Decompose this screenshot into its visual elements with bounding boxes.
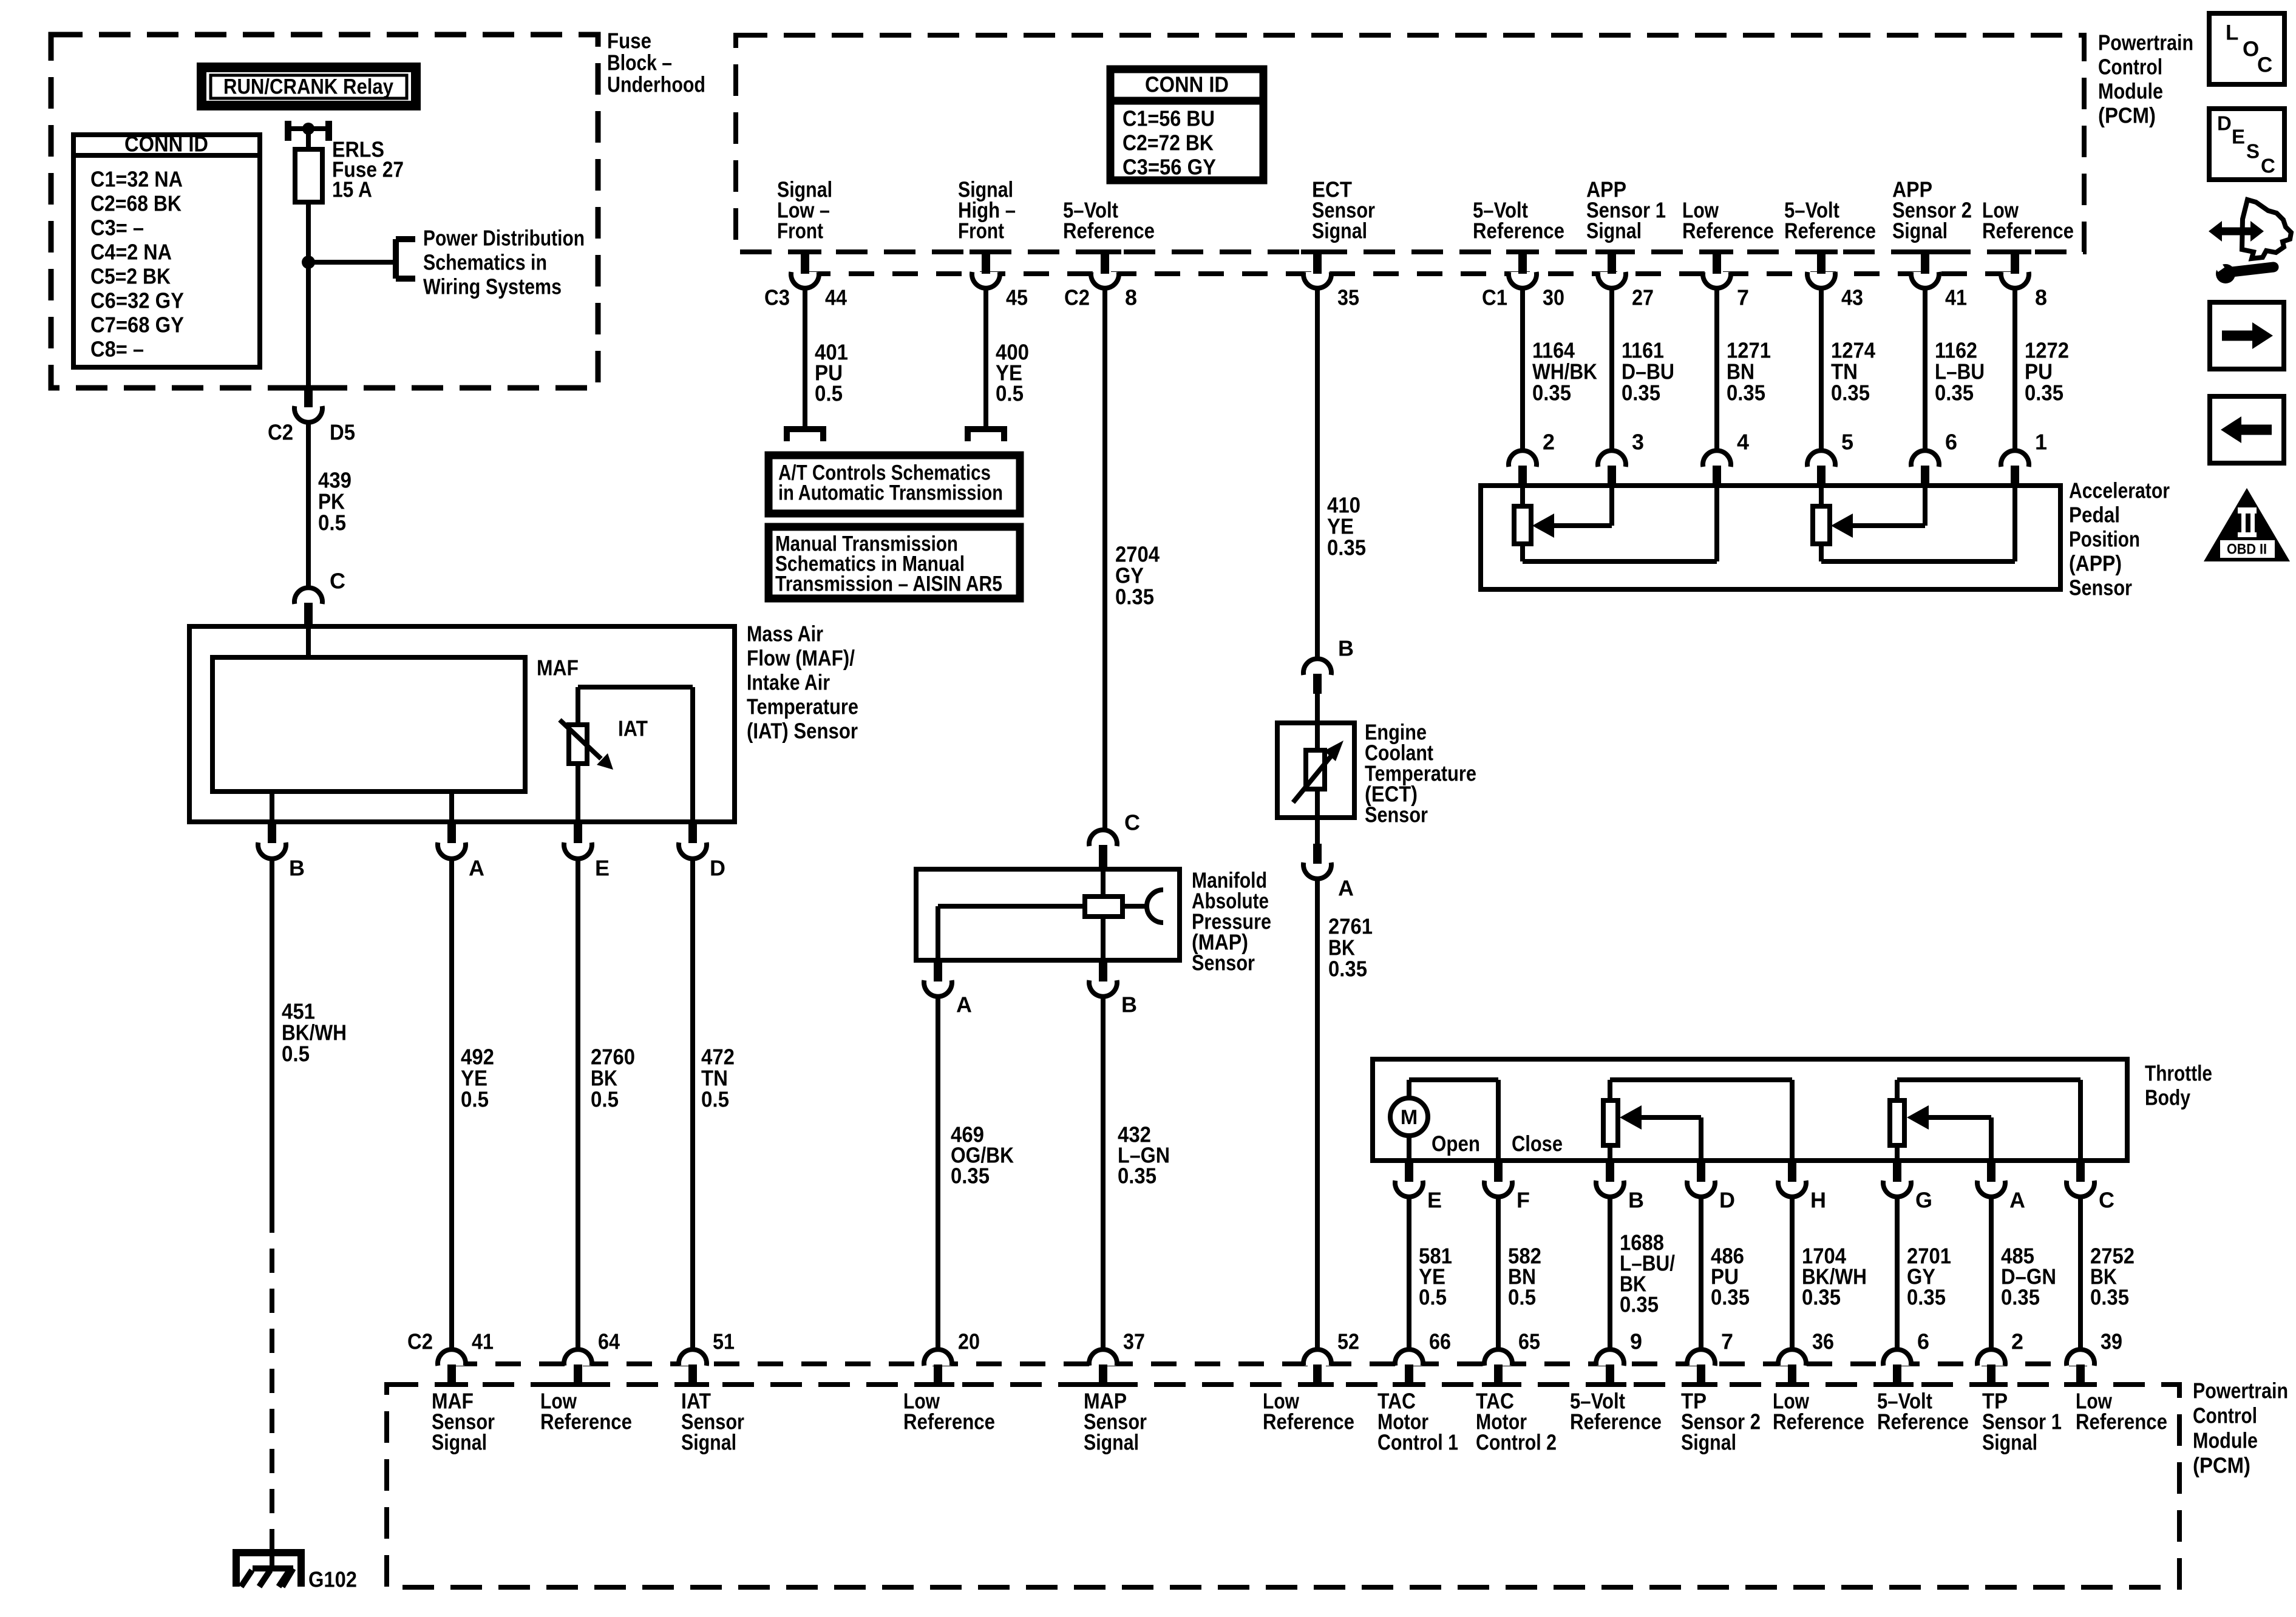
motor to pin E [1407, 1136, 1411, 1161]
svg-text:(APP): (APP) [2069, 551, 2122, 576]
svg-text:D: D [710, 856, 725, 881]
svg-text:0.5: 0.5 [701, 1087, 729, 1112]
MAP label [1192, 868, 1271, 975]
TP sensor 2 wiper [1620, 1105, 1701, 1161]
port label TAC Motor Control 1 [1377, 1389, 1458, 1455]
svg-text:Signal: Signal [1586, 219, 1642, 243]
wire label 1161 [1622, 338, 1674, 405]
PCM pin 44 [764, 252, 847, 310]
PCM pin 35 [1301, 252, 1359, 310]
svg-text:Transmission – AISIN AR5: Transmission – AISIN AR5 [775, 572, 1002, 596]
thermistor ECT [1293, 723, 1343, 818]
wire 432 L-GN [1101, 997, 1106, 1350]
APP pot 1 low wire [1523, 486, 1717, 561]
port label 5-Volt Reference C2 [1063, 198, 1155, 243]
svg-text:4: 4 [1737, 430, 1749, 455]
svg-text:8: 8 [2035, 285, 2047, 310]
wire label 582 [1508, 1244, 1541, 1310]
svg-text:CONN ID: CONN ID [124, 132, 208, 157]
wire label 485 [2001, 1244, 2056, 1310]
svg-text:Reference: Reference [1773, 1409, 1864, 1434]
CONN ID table PCM [1107, 69, 1267, 180]
svg-text:44: 44 [825, 285, 847, 310]
svg-text:Intake Air: Intake Air [747, 670, 830, 695]
svg-text:Mass Air: Mass Air [747, 622, 823, 646]
port label IAT Sensor Signal [681, 1389, 744, 1455]
svg-text:C3= –: C3= – [90, 215, 144, 240]
thermistor IAT [560, 716, 648, 770]
wire 1164 WH/BK [1520, 289, 1525, 450]
svg-text:in Automatic Transmission: in Automatic Transmission [778, 481, 1003, 505]
svg-text:2: 2 [1543, 430, 1555, 455]
svg-text:0.35: 0.35 [1907, 1285, 1946, 1310]
wire IAT top bracket [578, 687, 693, 822]
svg-text:0.35: 0.35 [1802, 1285, 1841, 1310]
wire junction to power distribution bracket [308, 260, 396, 265]
svg-text:Powertrain: Powertrain [2098, 30, 2193, 55]
svg-text:C: C [1124, 810, 1140, 835]
PCM pin 27 [1595, 252, 1654, 310]
MAP sensor box [916, 869, 1180, 960]
svg-text:E: E [1427, 1188, 1442, 1213]
throttle body label [2145, 1061, 2212, 1110]
svg-text:0.35: 0.35 [1327, 535, 1366, 560]
port label TP Sensor 2 Signal [1681, 1389, 1761, 1455]
svg-text:36: 36 [1812, 1329, 1834, 1354]
svg-text:Reference: Reference [2076, 1409, 2167, 1434]
svg-text:(PCM): (PCM) [2098, 103, 2156, 128]
svg-text:0.35: 0.35 [1532, 381, 1571, 405]
svg-text:B: B [1338, 636, 1354, 661]
svg-text:Block –: Block – [607, 50, 672, 75]
label Open [1432, 1131, 1480, 1156]
svg-text:Signal: Signal [1982, 1430, 2037, 1455]
svg-text:66: 66 [1429, 1329, 1451, 1354]
svg-text:41: 41 [472, 1329, 494, 1354]
MAP pin B [1089, 961, 1137, 1017]
svg-text:0.35: 0.35 [2090, 1285, 2129, 1310]
wire MAF pin B inside [270, 792, 274, 822]
svg-text:Sensor: Sensor [1365, 802, 1428, 827]
wire 2704 GY [1102, 289, 1107, 829]
svg-text:Underhood: Underhood [607, 72, 705, 97]
port label Signal High Front [958, 177, 1016, 243]
svg-text:5: 5 [1841, 430, 1853, 455]
throttle pin B [1596, 1162, 1644, 1213]
wire relay to fuse [306, 129, 311, 149]
svg-text:A: A [956, 992, 972, 1017]
wire label 486 [1711, 1244, 1750, 1310]
icon arrow left box [2210, 396, 2284, 463]
APP pot 1 wiper [1532, 486, 1612, 538]
svg-text:Throttle: Throttle [2145, 1061, 2212, 1086]
wire C into MAF [306, 626, 311, 657]
PCM bottom pin 20 [922, 1329, 980, 1385]
svg-text:A: A [1338, 876, 1354, 901]
svg-text:0.35: 0.35 [1727, 381, 1765, 405]
port label 5-Volt Reference 9 [1570, 1389, 1662, 1434]
throttle pin H [1778, 1162, 1826, 1213]
svg-text:Wiring Systems: Wiring Systems [423, 274, 562, 299]
svg-text:0.5: 0.5 [1419, 1285, 1447, 1310]
svg-text:Reference: Reference [1473, 219, 1564, 243]
MAF/IAT outer box [189, 626, 735, 822]
wire label 401 PU 0.5 [815, 340, 848, 406]
wire 582 [1496, 1198, 1501, 1350]
relay output terminal bracket [285, 121, 332, 141]
svg-text:Sensor: Sensor [2069, 575, 2132, 600]
svg-text:Reference: Reference [540, 1409, 632, 1434]
svg-text:C2: C2 [1064, 285, 1090, 310]
APP pin 2 [1509, 430, 1555, 485]
svg-text:C1=56 BU: C1=56 BU [1123, 106, 1215, 131]
throttle pin G [1883, 1162, 1932, 1213]
svg-text:7: 7 [1737, 285, 1749, 310]
svg-text:Reference: Reference [1982, 219, 2074, 243]
svg-text:Control 2: Control 2 [1476, 1430, 1557, 1455]
wire label 2701 [1907, 1244, 1951, 1310]
svg-text:OBD II: OBD II [2227, 541, 2267, 558]
PCM pin 8 C2 [1064, 252, 1137, 310]
APP potentiometer 2 [1813, 486, 1830, 561]
motor open wire [1409, 1080, 1498, 1161]
TAC motor M [1390, 1098, 1428, 1136]
svg-text:D: D [2217, 112, 2232, 135]
svg-text:Reference: Reference [1682, 219, 1774, 243]
wire ECT B to box [1315, 694, 1320, 723]
APP pin 5 [1807, 430, 1853, 485]
svg-text:0.35: 0.35 [1622, 381, 1660, 405]
icon LOC box [2209, 13, 2284, 84]
svg-text:0.35: 0.35 [1831, 381, 1870, 405]
APP pin 1 [2001, 430, 2047, 485]
CONN ID table fuse block [73, 132, 260, 368]
PCM bottom label [2193, 1378, 2288, 1478]
relay RUN/CRANK box [202, 67, 416, 106]
throttle pin C [2067, 1162, 2114, 1213]
svg-text:0.35: 0.35 [1935, 381, 1974, 405]
wire label 400 YE 0.5 [996, 340, 1029, 406]
svg-text:27: 27 [1632, 285, 1654, 310]
wire label 2760 BK 0.5 [591, 1045, 635, 1112]
wire 439 PK [306, 422, 311, 588]
PCM bottom pin 52 [1301, 1329, 1359, 1385]
wire 1704 [1790, 1198, 1795, 1350]
wire label 2704 GY 0.35 [1115, 542, 1160, 609]
svg-text:0.35: 0.35 [2001, 1285, 2040, 1310]
svg-text:RUN/CRANK Relay: RUN/CRANK Relay [223, 75, 393, 99]
APP pot 2 low wire [1821, 486, 2015, 561]
svg-text:Reference: Reference [903, 1409, 995, 1434]
ground G102 [236, 1551, 357, 1592]
svg-text:0.35: 0.35 [1620, 1292, 1659, 1317]
powertrain control module (PCM) bottom dashed box [387, 1385, 2179, 1587]
connector A at ECT [1303, 818, 1354, 901]
PCM bottom pin 41 [407, 1329, 494, 1385]
wire label 1164 [1532, 338, 1597, 405]
wire label 1271 [1727, 338, 1771, 405]
port label 5-Volt Reference 43 [1784, 198, 1876, 243]
PCM pin 41 [1909, 252, 1967, 310]
svg-text:Schematics in: Schematics in [423, 250, 547, 275]
svg-text:C1=32 NA: C1=32 NA [90, 167, 183, 192]
ECT sensor box [1277, 723, 1354, 818]
svg-text:M: M [1401, 1106, 1418, 1129]
svg-text:Flow (MAF)/: Flow (MAF)/ [747, 646, 855, 671]
wire 401 PU [803, 289, 807, 429]
MAF pin E [564, 823, 610, 881]
wire 485 [1989, 1198, 1994, 1350]
port label Low Reference 20 [903, 1389, 995, 1434]
port label Low Reference 52 [1263, 1389, 1354, 1434]
svg-text:43: 43 [1841, 285, 1863, 310]
connector B at ECT [1303, 636, 1354, 694]
throttle pin D [1687, 1162, 1735, 1213]
MAF pin B [258, 823, 305, 881]
port label APP Sensor 1 Signal [1586, 177, 1666, 243]
svg-text:C5=2 BK: C5=2 BK [90, 264, 171, 289]
svg-text:F: F [1517, 1188, 1530, 1213]
throttle body box [1373, 1059, 2127, 1161]
wire label 1274 [1831, 338, 1875, 405]
port label APP Sensor 2 Signal [1892, 177, 1972, 243]
wire label 439 PK 0.5 [318, 468, 352, 535]
port label Signal Low Front [777, 177, 832, 243]
svg-text:0.35: 0.35 [2025, 381, 2063, 405]
svg-text:0.5: 0.5 [996, 381, 1024, 406]
label Close [1512, 1131, 1563, 1156]
TP sensor 1 wiper [1907, 1105, 1991, 1161]
inline connector dotted line top [805, 271, 2015, 276]
svg-text:35: 35 [1337, 285, 1359, 310]
connector C at MAP [1089, 810, 1140, 870]
port label ECT Sensor Signal [1312, 177, 1375, 243]
svg-text:Signal: Signal [1892, 219, 1948, 243]
svg-text:Reference: Reference [1877, 1409, 1969, 1434]
PCM bottom pin 64 [562, 1329, 620, 1385]
wire 581 [1407, 1198, 1411, 1350]
wire 1162 L–BU [1923, 289, 1927, 450]
icon DESC box [2209, 109, 2284, 180]
svg-text:37: 37 [1123, 1329, 1145, 1354]
svg-text:65: 65 [1518, 1329, 1540, 1354]
svg-text:C2=68 BK: C2=68 BK [90, 191, 182, 216]
svg-text:Reference: Reference [1570, 1409, 1662, 1434]
MAF/IAT label [747, 622, 858, 744]
svg-text:Reference: Reference [1263, 1409, 1354, 1434]
svg-text:Reference: Reference [1784, 219, 1876, 243]
port label 5-Volt Reference 6 [1877, 1389, 1969, 1434]
icon OBD II triangle [2204, 488, 2290, 561]
port label Low Reference 7 [1682, 198, 1774, 243]
svg-text:Module: Module [2193, 1428, 2258, 1453]
wire label 451 BK/WH 0.5 [282, 999, 347, 1066]
PCM pin 45 [970, 252, 1028, 310]
svg-text:G: G [1915, 1188, 1932, 1213]
svg-text:C1: C1 [1482, 285, 1507, 310]
svg-text:Control: Control [2098, 55, 2162, 80]
wire 1161 D–BU [1609, 289, 1614, 450]
svg-text:Open: Open [1432, 1131, 1480, 1156]
PCM bottom pin 66 [1393, 1329, 1451, 1385]
svg-text:Front: Front [958, 219, 1004, 243]
svg-text:H: H [1810, 1188, 1826, 1213]
APP pin 4 [1703, 430, 1749, 485]
PCM pin 30 C1 [1482, 252, 1564, 310]
svg-text:45: 45 [1006, 285, 1028, 310]
APP pot 2 wiper [1831, 486, 1925, 538]
svg-text:15 A: 15 A [332, 177, 372, 202]
svg-text:D5: D5 [330, 420, 355, 445]
port label MAP Sensor Signal [1084, 1389, 1147, 1455]
PCM bottom pin 2 [1975, 1329, 2023, 1385]
svg-text:Body: Body [2145, 1085, 2190, 1110]
svg-text:30: 30 [1543, 285, 1564, 310]
svg-text:L: L [2226, 21, 2238, 45]
svg-text:Signal: Signal [432, 1430, 487, 1455]
PCM pin 8 C1 [1999, 252, 2047, 310]
svg-text:C3: C3 [764, 285, 790, 310]
svg-text:C2: C2 [268, 420, 293, 445]
svg-text:0.5: 0.5 [282, 1042, 310, 1066]
wire MAF pin A inside [449, 792, 454, 822]
fuse block label [607, 29, 705, 97]
wire label 410 YE 0.35 [1327, 493, 1366, 560]
PCM pin 43 [1805, 252, 1863, 310]
wire 492 YE [449, 859, 454, 1350]
power distribution bracket [396, 239, 415, 279]
svg-text:CONN ID: CONN ID [1145, 72, 1229, 97]
svg-text:Power Distribution: Power Distribution [423, 226, 585, 251]
APP pin 3 [1598, 430, 1644, 485]
port label TP Sensor 1 Signal [1982, 1389, 2062, 1455]
MAP pin A [924, 961, 972, 1017]
wire label 492 YE 0.5 [461, 1045, 494, 1112]
svg-text:(PCM): (PCM) [2193, 1453, 2250, 1478]
svg-text:C2: C2 [407, 1329, 433, 1354]
svg-text:Signal: Signal [681, 1430, 736, 1455]
wire 451 dashed to ground [270, 1209, 274, 1551]
svg-text:E: E [595, 856, 610, 881]
svg-text:Close: Close [1512, 1131, 1563, 1156]
svg-text:C3=56 GY: C3=56 GY [1123, 155, 1216, 180]
throttle pin E [1395, 1162, 1442, 1213]
wire IAT bottom [576, 764, 580, 822]
wire 451 BK/WH solid [270, 859, 274, 1209]
svg-text:Temperature: Temperature [747, 694, 858, 719]
manual transmission reference box [769, 527, 1020, 598]
APP sensor box [1481, 486, 2060, 589]
svg-text:Fuse: Fuse [607, 29, 651, 53]
svg-text:39: 39 [2101, 1329, 2122, 1354]
wire label 469 OG/BK 0.35 [951, 1122, 1014, 1188]
svg-text:(IAT) Sensor: (IAT) Sensor [747, 719, 858, 744]
svg-text:Signal: Signal [1084, 1430, 1139, 1455]
PCM bottom pin 9 [1594, 1329, 1642, 1385]
svg-text:0.35: 0.35 [1711, 1285, 1750, 1310]
svg-text:IAT: IAT [618, 716, 648, 741]
svg-text:C4=2 NA: C4=2 NA [90, 240, 172, 265]
fuse block underhood dashed box [51, 35, 598, 388]
icon wiring tool [2209, 200, 2291, 283]
svg-text:41: 41 [1945, 285, 1967, 310]
connector C2 pin D5 [268, 388, 355, 445]
connector C at MAF [294, 569, 345, 628]
svg-text:0.5: 0.5 [461, 1087, 489, 1112]
svg-text:Control: Control [2193, 1403, 2257, 1428]
ECT label [1365, 720, 1476, 827]
PCM top label [2098, 30, 2193, 128]
wire 1688 [1608, 1198, 1612, 1350]
svg-text:0.35: 0.35 [951, 1164, 990, 1188]
throttle pin A [1977, 1162, 2025, 1213]
svg-text:C6=32 GY: C6=32 GY [90, 288, 184, 313]
wire label 1272 [2025, 338, 2069, 405]
svg-text:B: B [1628, 1188, 1644, 1213]
MAP internal symbol [938, 869, 1163, 960]
wire 2760 BK [576, 859, 580, 1350]
port label Low Reference 39 [2076, 1389, 2167, 1434]
svg-text:51: 51 [713, 1329, 735, 1354]
svg-text:G102: G102 [308, 1567, 357, 1592]
TP sensor 1 potentiometer [1890, 1080, 2080, 1161]
svg-text:D: D [1719, 1188, 1735, 1213]
svg-text:B: B [1121, 992, 1137, 1017]
svg-text:6: 6 [1917, 1329, 1929, 1354]
wire fuse to junction [306, 202, 311, 262]
svg-text:Powertrain: Powertrain [2193, 1378, 2288, 1403]
svg-text:Module: Module [2098, 79, 2163, 104]
PCM pin 7 [1700, 252, 1749, 310]
PCM bottom pin 51 [676, 1329, 735, 1385]
bracket to A/T box 44 [787, 429, 823, 441]
wire 400 YE [983, 289, 988, 429]
TP sensor 2 potentiometer [1603, 1080, 1792, 1161]
svg-text:E: E [2232, 126, 2245, 148]
bracket to A/T box 45 [968, 429, 1004, 441]
svg-text:0.35: 0.35 [1118, 1164, 1156, 1188]
svg-text:0.5: 0.5 [815, 381, 843, 406]
port label Low Reference 36 [1773, 1389, 1864, 1434]
wire 2761 BK [1315, 880, 1320, 1350]
port label 5-Volt Reference 30 [1473, 198, 1564, 243]
svg-text:C: C [2257, 53, 2272, 77]
powertrain control module (PCM) top dashed box [736, 35, 2084, 252]
fuse label [332, 137, 404, 202]
APP potentiometer 1 [1514, 486, 1531, 561]
svg-text:Sensor: Sensor [1192, 951, 1255, 975]
PCM bottom pin 6 [1881, 1329, 1929, 1385]
wire label 2752 [2090, 1244, 2135, 1310]
wire 1271 BN [1714, 289, 1719, 450]
power distribution label [423, 226, 585, 299]
svg-text:8: 8 [1125, 285, 1137, 310]
throttle pin F [1484, 1162, 1530, 1213]
port label MAF Sensor Signal [432, 1389, 495, 1455]
PCM bottom pin 37 [1087, 1329, 1145, 1385]
MAF pin A [438, 823, 484, 881]
wire 2752 [2078, 1198, 2083, 1350]
svg-text:Position: Position [2069, 527, 2140, 552]
wire 410 YE [1315, 289, 1320, 659]
wire label 1162 [1935, 338, 1985, 405]
wire 486 [1699, 1198, 1703, 1350]
svg-text:Reference: Reference [1063, 219, 1155, 243]
svg-text:S: S [2246, 140, 2260, 163]
wire label 2761 BK 0.35 [1328, 914, 1373, 981]
svg-text:C8= –: C8= – [90, 337, 144, 362]
svg-text:Front: Front [777, 219, 823, 243]
